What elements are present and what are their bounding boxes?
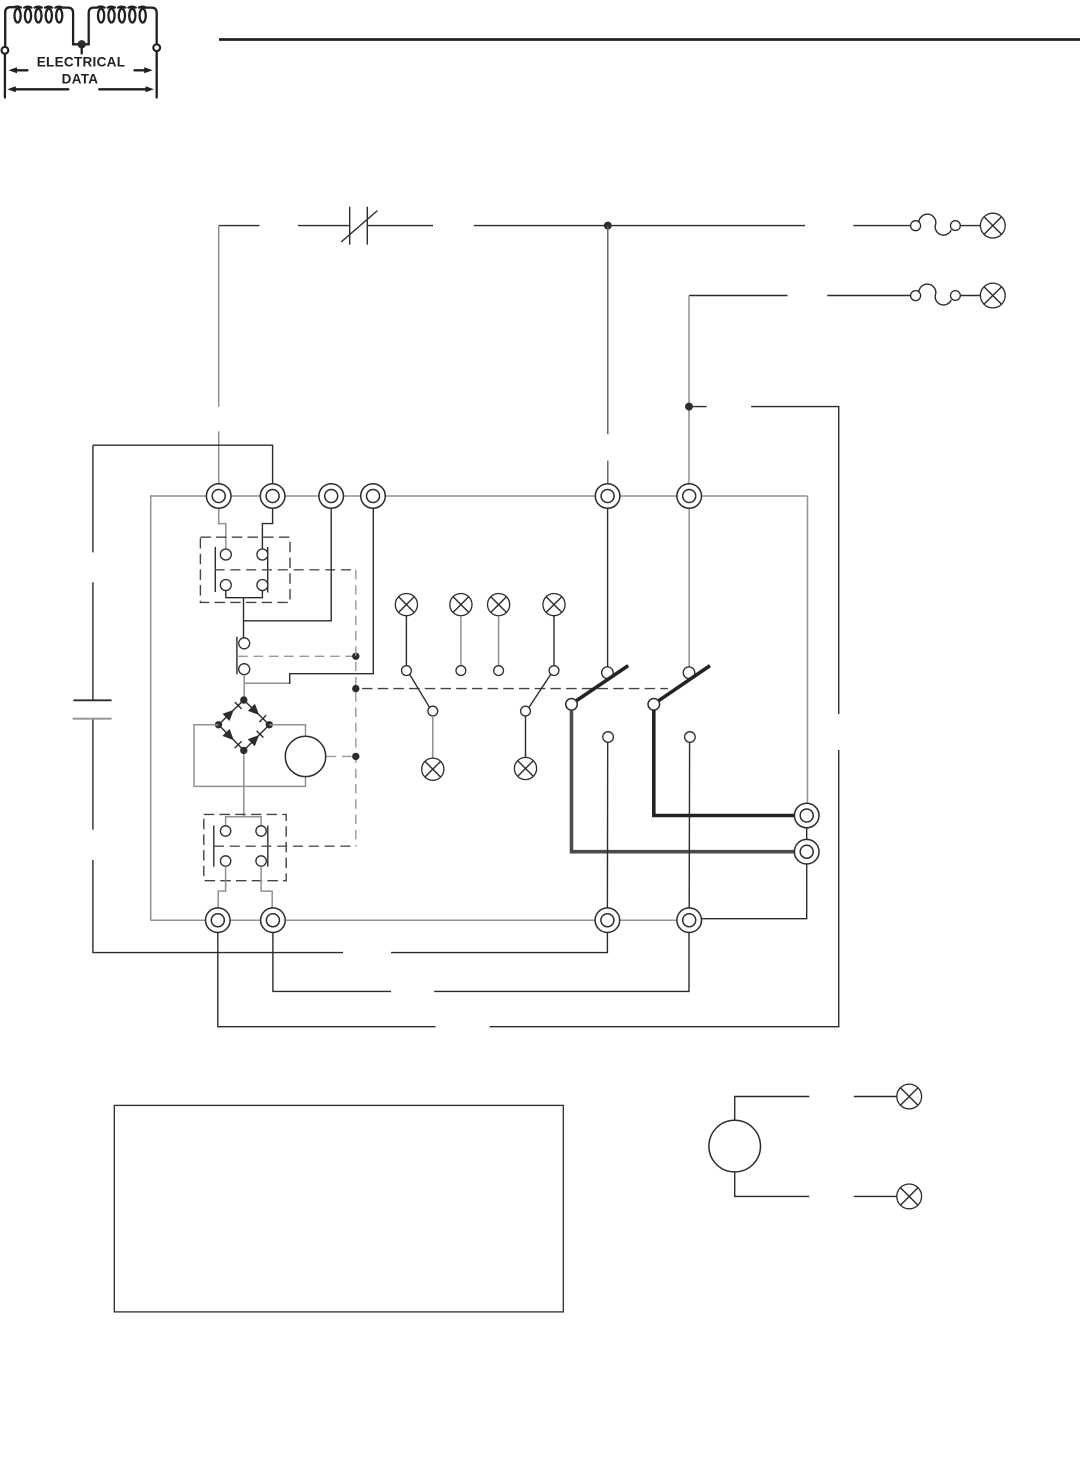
wire outer loop left lower xyxy=(93,720,608,953)
wire terminal T1 to relay K1 contact xyxy=(219,508,226,550)
relay K1 armature bar left xyxy=(214,547,216,592)
wire drop from node A to terminal T5 xyxy=(607,226,609,484)
terminal T2B xyxy=(261,908,286,933)
wire center-tap stub xyxy=(81,46,83,54)
motor M2 xyxy=(709,1120,761,1172)
relay K1 armature bar right xyxy=(267,547,269,593)
dashed link J1 to dashed bus xyxy=(238,655,355,657)
wire DS4 stem xyxy=(460,616,462,666)
heavy wire S5 pole to terminal TR2 xyxy=(572,710,796,852)
wire inner box right side (gray) xyxy=(807,496,809,804)
connector J1 bar xyxy=(236,637,238,675)
capacitor C1 top plate xyxy=(73,699,111,701)
inductor coil R-right of logo xyxy=(86,7,157,45)
arrow bottom-left long xyxy=(7,86,68,92)
lamp DS3 xyxy=(395,594,417,616)
wire S1 pole to lamp DS7 xyxy=(432,716,434,758)
connector J1 pin lower xyxy=(239,664,250,675)
arrow right small xyxy=(135,67,153,73)
switch S6 upper contact xyxy=(683,667,695,679)
wire DS3 stem xyxy=(405,616,407,666)
wire branch to terminal T4 (gray jog) xyxy=(244,682,290,684)
wire logo right lead xyxy=(156,51,158,97)
switch S5 lower contact xyxy=(603,732,614,743)
wire terminal T2 to relay K1 contact xyxy=(262,508,272,550)
wire T2B to T6B link (y=991) xyxy=(273,932,689,991)
wire drop feeder L2 to terminal T6 xyxy=(688,296,690,484)
heavy wire S6 pole to terminal TR1 xyxy=(654,710,795,816)
node left logo terminal (open circle) xyxy=(2,47,9,54)
junction dot on dashed bus (upper) xyxy=(352,653,359,660)
diode D1 (left to top) xyxy=(223,702,242,721)
junction node A on feeder xyxy=(604,222,612,230)
junction dot on dashed bus (lower) xyxy=(352,753,359,760)
wire DS6 stem xyxy=(553,616,555,666)
wire bridge bottom to relay K2 xyxy=(243,754,245,817)
terminal T4 xyxy=(361,484,386,509)
terminal T6 xyxy=(677,484,702,509)
terminal T5 xyxy=(595,484,620,509)
relay K2 armature bar right xyxy=(267,826,269,867)
svg-text:DATA: DATA xyxy=(62,72,99,87)
wire relay K1 lower contacts join xyxy=(226,591,263,639)
wire terminal T5 to switch S5 xyxy=(607,508,609,667)
contact CB1 normally-closed breaker xyxy=(341,207,377,245)
node right logo terminal (open circle) xyxy=(153,44,160,51)
motor M1 xyxy=(285,736,325,776)
connector J1 pin upper xyxy=(239,638,250,649)
relay K2 contact pin 4 xyxy=(256,856,266,866)
wire DS5 stem xyxy=(498,616,500,666)
wire M2 bottom lead xyxy=(735,1172,897,1197)
junction dot center-tap of logo coils xyxy=(78,40,86,48)
wire inner box left side (gray) xyxy=(150,495,152,920)
switch S1 pole xyxy=(428,706,438,716)
wire inner box bottom bus xyxy=(151,919,689,921)
wire relay K2 pin4 to terminal T2B xyxy=(261,866,272,909)
relay K1 contact pin 4 xyxy=(257,580,268,591)
dashed stub motor M1 to bus xyxy=(327,755,352,757)
bridge BR1 corner dot bottom xyxy=(240,747,247,754)
diode D3 (left to bottom) xyxy=(222,729,241,748)
wire inner box top bus xyxy=(151,495,808,497)
relay K2 contact pin 3 xyxy=(220,856,230,866)
lamp DS6 xyxy=(543,594,565,616)
lamp DS7 xyxy=(422,758,444,780)
relay K1 contact pin 2 xyxy=(257,549,268,560)
lamp DS4 xyxy=(450,594,472,616)
capacitor C1 bottom plate xyxy=(73,718,112,720)
wire S4 pole to lamp DS8 xyxy=(525,716,527,757)
switch S2 contact xyxy=(456,666,466,676)
lamp DS10 xyxy=(897,1184,922,1209)
arrow left small xyxy=(9,67,28,73)
terminal T1 xyxy=(206,484,231,509)
diode D2 (top to right) xyxy=(248,704,266,722)
inductor coil L-left of ELECTRICAL DATA logo xyxy=(5,7,78,46)
switch S6 blade (thick) xyxy=(659,666,710,701)
wire J1 lower pin to bridge xyxy=(243,675,245,697)
relay K2 enclosure (dashed) xyxy=(204,814,286,880)
svg-text:ELECTRICAL: ELECTRICAL xyxy=(37,55,126,70)
relay K1 enclosure (dashed) xyxy=(200,537,290,602)
lamp DS8 xyxy=(514,757,536,779)
wire node B to right-side drop xyxy=(693,406,839,408)
wire logo left lead xyxy=(4,54,6,98)
lamp DS2 xyxy=(980,283,1005,308)
wire right-side vertical drop x=838.7 xyxy=(838,407,840,1028)
terminal T5B xyxy=(595,908,620,933)
switch S4 blade xyxy=(529,674,551,707)
junction node B xyxy=(685,403,693,411)
switch S4 pole xyxy=(521,706,531,716)
lamp DS9 xyxy=(897,1084,922,1109)
relay K2 armature bar left xyxy=(213,826,215,867)
terminal T1B xyxy=(206,908,231,933)
switch S3 contact xyxy=(494,666,504,676)
dashed control line long (y=688.6) xyxy=(362,688,668,690)
wire outer loop left upper xyxy=(92,445,94,700)
wire link terminals TR1-TR2 xyxy=(806,827,808,840)
terminal TR2 xyxy=(794,839,819,864)
switch S5 blade (thick) xyxy=(576,666,628,701)
wire terminal TR2 to bottom bus (dark) xyxy=(701,863,808,918)
fuse F2 xyxy=(911,284,961,305)
horizontal rule header line xyxy=(219,38,1080,41)
terminal T2 xyxy=(260,484,285,509)
switch S5 upper contact xyxy=(602,667,614,679)
junction dot on dashed bus (middle) xyxy=(352,685,359,692)
dashed bus vertical xyxy=(355,570,357,846)
wire bridge left arm loop xyxy=(194,725,306,787)
fuse F1 xyxy=(911,214,961,235)
bridge rectifier BR1 frame xyxy=(219,700,270,750)
bridge BR1 corner dot top xyxy=(240,696,247,703)
diode D4 (bottom to right) xyxy=(248,731,264,747)
wire S5 lower contact to terminal T5B xyxy=(606,742,608,909)
wire outer loop top (terminal T2 riser) xyxy=(93,445,273,484)
switch S1 contact xyxy=(402,666,412,676)
wire feeder L2 (y=295.5) xyxy=(689,295,980,297)
wire M2 top lead xyxy=(735,1097,897,1121)
switch S6 lower contact xyxy=(685,732,696,743)
wire branch to terminal T4 (dark) xyxy=(290,508,374,684)
relay K2 contact pin 1 xyxy=(220,826,230,836)
relay K1 actuator dashed link xyxy=(215,569,356,571)
switch S1 blade xyxy=(410,674,430,707)
wire drop from feeder to terminal T1 xyxy=(218,226,220,484)
wire top feeder L1 (y=225.6) xyxy=(219,225,981,227)
switch S6 pole xyxy=(648,699,660,711)
relay K1 contact pin 3 xyxy=(220,580,231,591)
switch S4 contact xyxy=(549,666,559,676)
terminal T6B xyxy=(677,908,702,933)
switch S5 pole xyxy=(566,699,578,711)
lamp DS1 xyxy=(980,213,1005,238)
terminal TR1 xyxy=(794,803,819,828)
wire relay K1 to terminal T3 xyxy=(244,508,332,621)
arrow bottom-right long xyxy=(99,86,154,92)
bridge BR1 corner dot left xyxy=(215,721,222,728)
legend box (empty notes rectangle) xyxy=(114,1105,563,1312)
wire S6 lower contact to terminal T6B xyxy=(688,742,690,909)
wire relay K2 top tee xyxy=(226,817,262,826)
lamp DS5 xyxy=(488,594,510,616)
wire relay K2 pin3 to terminal T1B xyxy=(218,866,225,909)
relay K1 contact pin 1 xyxy=(220,549,231,560)
relay K2 actuator dashed link xyxy=(214,845,357,847)
bridge BR1 corner dot right xyxy=(266,721,273,728)
wire T1B to right drop (y=1026.7) xyxy=(218,932,840,1027)
wire terminal T6 to switch S6 xyxy=(688,508,690,667)
wire bridge right arm to motor xyxy=(269,725,305,737)
relay K2 contact pin 2 xyxy=(256,826,266,836)
terminal T3 xyxy=(319,484,344,509)
